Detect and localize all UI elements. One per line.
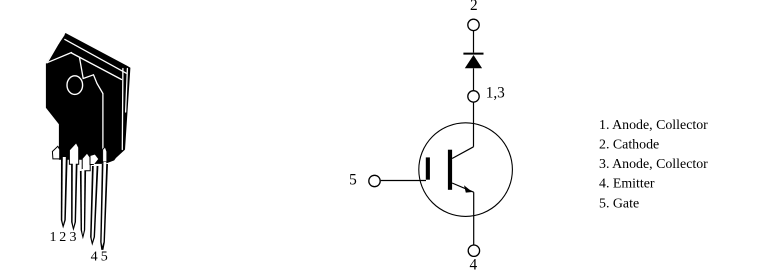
svg-text:2: 2 xyxy=(59,230,66,245)
svg-text:5: 5 xyxy=(349,171,357,188)
svg-text:3: 3 xyxy=(70,230,77,245)
svg-text:5. Gate: 5. Gate xyxy=(599,197,639,212)
svg-text:4. Emitter: 4. Emitter xyxy=(599,177,655,192)
svg-text:3. Anode, Collector: 3. Anode, Collector xyxy=(599,157,708,172)
svg-text:2. Cathode: 2. Cathode xyxy=(599,138,659,153)
svg-text:1,3: 1,3 xyxy=(486,84,505,101)
svg-text:4: 4 xyxy=(91,250,98,265)
svg-text:1. Anode, Collector: 1. Anode, Collector xyxy=(599,118,708,133)
svg-text:4: 4 xyxy=(469,257,477,274)
svg-text:2: 2 xyxy=(470,0,478,14)
svg-text:5: 5 xyxy=(101,250,108,265)
svg-text:1: 1 xyxy=(50,230,57,245)
